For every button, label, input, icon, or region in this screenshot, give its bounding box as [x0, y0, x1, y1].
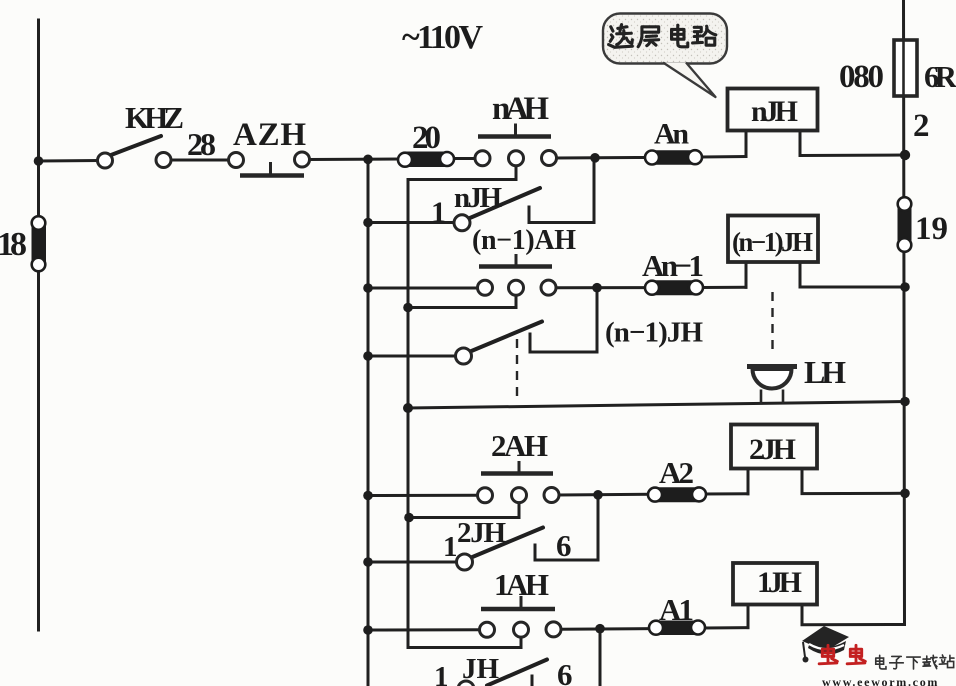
- svg-text:2: 2: [913, 108, 930, 144]
- svg-text:JH: JH: [462, 653, 499, 685]
- svg-text:1AH: 1AH: [494, 567, 549, 602]
- svg-text:18: 18: [0, 226, 27, 263]
- svg-text:2JH: 2JH: [749, 433, 796, 466]
- svg-text:(n−1)JH: (n−1)JH: [732, 227, 813, 257]
- svg-text:6: 6: [557, 657, 573, 686]
- svg-text:LH: LH: [804, 354, 846, 390]
- svg-text:An−1: An−1: [642, 248, 704, 283]
- svg-text:19: 19: [915, 211, 948, 247]
- svg-text:1: 1: [434, 661, 449, 686]
- svg-text:(n−1)AH: (n−1)AH: [472, 225, 576, 256]
- svg-text:1: 1: [431, 196, 446, 229]
- svg-text:1JH: 1JH: [757, 566, 802, 599]
- svg-text:(n−1)JH: (n−1)JH: [605, 317, 703, 349]
- svg-text:An: An: [654, 118, 689, 151]
- svg-text:nJH: nJH: [454, 182, 502, 214]
- svg-text:~110V: ~110V: [402, 19, 483, 56]
- svg-text:AZH: AZH: [233, 117, 306, 153]
- svg-text:1: 1: [443, 531, 458, 563]
- svg-text:2AH: 2AH: [491, 428, 548, 463]
- svg-text:nAH: nAH: [492, 91, 549, 127]
- svg-text:www.eeworm.com: www.eeworm.com: [822, 675, 939, 686]
- svg-text:28: 28: [187, 126, 216, 162]
- svg-text:20: 20: [412, 120, 441, 156]
- svg-text:080: 080: [839, 59, 884, 95]
- svg-text:A2: A2: [659, 455, 694, 490]
- svg-text:6: 6: [556, 528, 572, 563]
- svg-text:KHZ: KHZ: [125, 100, 184, 135]
- svg-text:6R: 6R: [924, 59, 956, 94]
- svg-text:A1: A1: [659, 592, 694, 627]
- svg-text:2JH: 2JH: [457, 517, 506, 549]
- svg-text:nJH: nJH: [751, 95, 798, 128]
